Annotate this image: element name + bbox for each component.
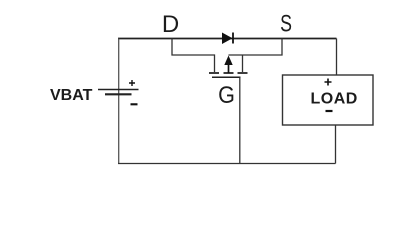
svg-text:G: G xyxy=(218,81,235,108)
svg-text:LOAD: LOAD xyxy=(311,91,358,108)
svg-text:S: S xyxy=(280,11,292,37)
svg-text:VBAT: VBAT xyxy=(50,87,93,104)
svg-text:D: D xyxy=(162,11,179,38)
